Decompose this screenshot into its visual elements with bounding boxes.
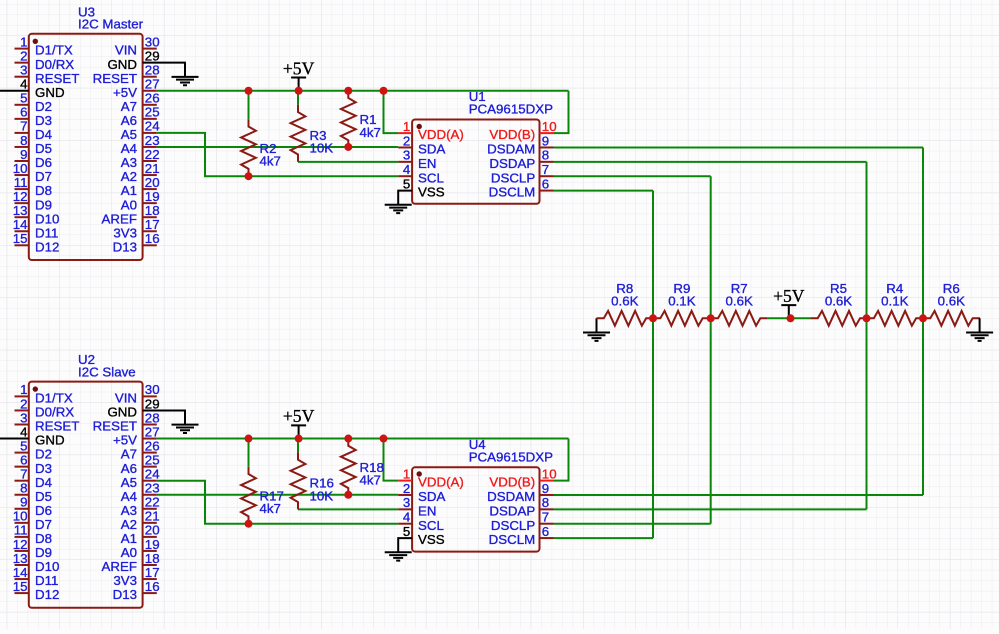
U2 left pin 10 D7 xyxy=(13,509,52,532)
connector U3 body xyxy=(29,34,143,260)
svg-text:D6: D6 xyxy=(35,155,52,170)
U4 right pin 6 DSCLM xyxy=(489,524,554,547)
U1 left pin 1 VDD(A) xyxy=(398,119,464,142)
svg-text:16: 16 xyxy=(145,231,160,246)
U2 right pin 17 3V3 xyxy=(113,565,159,588)
svg-text:16: 16 xyxy=(145,579,160,594)
ground right of R6 xyxy=(966,318,993,341)
svg-text:DSDAM: DSDAM xyxy=(487,489,535,504)
svg-text:D12: D12 xyxy=(35,587,59,602)
U3 left pin 4 GND xyxy=(20,77,64,100)
resistor R1 4k7 (vertical) xyxy=(341,91,356,148)
svg-text:4k7: 4k7 xyxy=(360,473,381,488)
U2 right pin 26 A7 xyxy=(121,438,160,461)
svg-text:0.1K: 0.1K xyxy=(668,293,695,308)
ground near U2 pin 29 xyxy=(172,410,199,433)
U2 left pin 15 D12 xyxy=(13,579,60,602)
svg-text:21: 21 xyxy=(145,161,160,176)
svg-text:0.6K: 0.6K xyxy=(726,293,753,308)
svg-text:D3: D3 xyxy=(35,113,52,128)
wire R2 top lead wire xyxy=(248,91,250,119)
U2 right pin 22 A3 xyxy=(121,495,160,518)
svg-text:28: 28 xyxy=(145,410,160,425)
U2 right pin 19 A0 xyxy=(121,537,160,560)
svg-text:9: 9 xyxy=(20,495,27,510)
svg-text:5: 5 xyxy=(20,438,27,453)
U4 right pin 9 DSDAM xyxy=(487,481,553,504)
svg-text:11: 11 xyxy=(14,523,28,538)
svg-text:7: 7 xyxy=(542,162,549,177)
svg-text:+5V: +5V xyxy=(113,85,137,100)
svg-text:RESET: RESET xyxy=(93,71,137,86)
U2 right pin 30 VIN xyxy=(115,382,160,405)
svg-text:9: 9 xyxy=(20,147,27,162)
svg-text:AREF: AREF xyxy=(102,211,137,226)
svg-text:25: 25 xyxy=(145,452,160,467)
wire net SCL: U3 A5 jog xyxy=(157,133,398,176)
U2 left pin 8 D5 xyxy=(15,481,53,504)
svg-text:5: 5 xyxy=(20,91,27,106)
svg-text:6: 6 xyxy=(542,176,549,191)
svg-text:18: 18 xyxy=(145,203,160,218)
svg-text:A4: A4 xyxy=(121,141,137,156)
svg-text:D9: D9 xyxy=(35,197,52,212)
U3 right pin 23 A4 xyxy=(121,133,160,156)
svg-text:GND: GND xyxy=(107,405,137,420)
svg-text:12: 12 xyxy=(13,189,28,204)
svg-text:3V3: 3V3 xyxy=(113,225,137,240)
svg-text:VDD(B): VDD(B) xyxy=(489,127,535,142)
svg-text:D2: D2 xyxy=(35,99,52,114)
U3 pin-1 marker dot xyxy=(33,39,38,44)
wire net DSCLP A: U1 pin7 xyxy=(554,175,711,177)
wire rail branch to U4 pin1 VDD(A) xyxy=(384,439,399,481)
wire net DSDAP B: U4 pin8 xyxy=(554,508,867,510)
svg-text:D13: D13 xyxy=(113,587,137,602)
U2 right pin 29 GND xyxy=(107,396,159,419)
svg-text:24: 24 xyxy=(145,119,160,134)
svg-text:14: 14 xyxy=(13,217,28,232)
svg-text:VDD(A): VDD(A) xyxy=(418,127,464,142)
wire net EN B: R16 bottom to U4 pin3 xyxy=(298,508,398,510)
resistor R8 0.6K (horizontal) xyxy=(597,311,654,326)
svg-text:+5V: +5V xyxy=(283,406,315,426)
U2 left pin 2 D0/RX xyxy=(15,396,75,419)
wire R16 top lead wire xyxy=(297,439,299,453)
power +5V termination mid xyxy=(781,305,796,318)
U4 right pin 7 DSCLP xyxy=(491,510,554,533)
svg-text:2: 2 xyxy=(403,481,410,496)
svg-text:7: 7 xyxy=(20,467,27,482)
U2 right pin 27 +5V xyxy=(113,424,160,447)
U2 left pin 7 D4 xyxy=(15,467,53,490)
svg-text:DSCLP: DSCLP xyxy=(491,170,535,185)
svg-text:SDA: SDA xyxy=(418,489,445,504)
svg-text:13: 13 xyxy=(13,203,28,218)
wire net DSCLP B: U4 pin7 xyxy=(554,523,711,525)
U2 left pin 1 D1/TX xyxy=(15,382,73,405)
resistor R7 0.6K (horizontal) xyxy=(711,311,768,326)
svg-text:D10: D10 xyxy=(35,211,59,226)
U3 right pin 18 AREF xyxy=(102,203,160,226)
U3 right pin 19 A0 xyxy=(121,189,160,212)
svg-text:4k7: 4k7 xyxy=(360,125,381,140)
svg-text:GND: GND xyxy=(107,57,137,72)
svg-text:+5V: +5V xyxy=(773,286,805,306)
U2 pin-1 marker dot xyxy=(33,386,38,391)
U2 left pin 5 D2 xyxy=(15,438,53,461)
svg-text:3: 3 xyxy=(403,495,410,510)
ground near U3 pin 29 xyxy=(172,63,199,86)
svg-text:VDD(B): VDD(B) xyxy=(489,475,535,490)
svg-text:D4: D4 xyxy=(35,127,52,142)
junction R4/R6/DSDAM xyxy=(919,314,927,322)
U2 right pin 21 A2 xyxy=(121,509,160,532)
svg-text:VIN: VIN xyxy=(115,391,137,406)
junction rail/R1 xyxy=(344,87,352,95)
U3 left pin 9 D6 xyxy=(15,147,53,170)
svg-text:A6: A6 xyxy=(121,461,137,476)
svg-text:28: 28 xyxy=(145,63,160,78)
svg-text:3: 3 xyxy=(20,410,27,425)
svg-text:8: 8 xyxy=(542,148,549,163)
U1 left pin 5 VSS xyxy=(403,176,445,199)
U2 right pin 23 A4 xyxy=(121,481,160,504)
svg-text:20: 20 xyxy=(145,523,160,538)
U3 left pin 14 D11 xyxy=(13,217,59,240)
svg-text:2: 2 xyxy=(20,48,27,63)
resistor R3 10K (vertical) xyxy=(291,105,306,162)
U1 right pin 9 DSDAM xyxy=(487,133,553,156)
svg-text:DSCLP: DSCLP xyxy=(491,518,535,533)
resistor R9 0.1K (horizontal) xyxy=(653,311,710,326)
svg-text:4: 4 xyxy=(20,77,27,92)
svg-text:PCA9615DXP: PCA9615DXP xyxy=(469,450,553,465)
svg-text:D8: D8 xyxy=(35,183,52,198)
svg-text:A5: A5 xyxy=(121,127,137,142)
resistor R16 10K (vertical) xyxy=(291,452,306,509)
U4 right pin 8 DSDAP xyxy=(489,495,553,518)
wire net SDA: U3 A4 to U1 pin2 xyxy=(157,146,398,148)
U2 right pin 24 A5 xyxy=(121,467,160,490)
svg-text:3: 3 xyxy=(20,63,27,78)
svg-text:I2C Slave: I2C Slave xyxy=(78,364,136,379)
U3 left pin 1 D1/TX xyxy=(15,34,73,57)
junction R8/R9/DSCLM xyxy=(649,314,657,322)
U2 left pin 9 D6 xyxy=(15,495,53,518)
svg-text:D5: D5 xyxy=(35,489,52,504)
U3 right pin 30 VIN xyxy=(115,34,160,57)
svg-text:DSDAP: DSDAP xyxy=(489,156,535,171)
svg-text:A2: A2 xyxy=(121,517,137,532)
svg-text:25: 25 xyxy=(145,105,160,120)
svg-text:VSS: VSS xyxy=(418,532,445,547)
svg-text:D5: D5 xyxy=(35,141,52,156)
U2 left pin 14 D11 xyxy=(13,565,59,588)
wire net DSDAP A: U1 pin8 xyxy=(554,161,867,163)
svg-text:A5: A5 xyxy=(121,475,137,490)
junction SDA/R1 bottom xyxy=(344,143,352,151)
U3 right pin 17 3V3 xyxy=(113,217,159,240)
svg-text:4: 4 xyxy=(20,424,27,439)
power +5V bottom rail xyxy=(291,425,306,438)
ground left of R8 xyxy=(583,318,610,341)
svg-text:SCL: SCL xyxy=(418,170,444,185)
IC U1 PCA9615DXP body xyxy=(412,120,539,204)
svg-text:20: 20 xyxy=(145,175,160,190)
U2 left pin 6 D3 xyxy=(15,452,53,475)
resistor R17 4k7 (vertical) xyxy=(241,467,256,524)
svg-text:D1/TX: D1/TX xyxy=(35,391,73,406)
U3 left pin 11 D8 xyxy=(14,175,52,198)
U1 right pin 10 VDD(B) xyxy=(489,119,556,142)
wire +5V rail bottom xyxy=(157,438,569,440)
wire net DSCLM B: U4 pin6 xyxy=(554,537,654,539)
junction rail/+5V/R3 xyxy=(295,87,303,95)
svg-text:11: 11 xyxy=(14,175,28,190)
U4 left pin 3 EN xyxy=(398,495,436,518)
wire rail to U1 pin10 VDD(B) xyxy=(554,91,569,133)
svg-text:7: 7 xyxy=(542,510,549,525)
svg-text:24: 24 xyxy=(145,467,160,482)
svg-text:4k7: 4k7 xyxy=(260,501,281,516)
U3 right pin 16 D13 xyxy=(113,231,160,254)
svg-text:D2: D2 xyxy=(35,447,52,462)
U3 left pin 10 D7 xyxy=(13,161,52,184)
svg-text:+5V: +5V xyxy=(283,58,315,78)
U3 right pin 28 RESET xyxy=(93,63,160,86)
U3 left pin 5 D2 xyxy=(15,91,53,114)
svg-text:A1: A1 xyxy=(121,531,137,546)
svg-text:29: 29 xyxy=(145,396,160,411)
svg-text:A4: A4 xyxy=(121,489,137,504)
svg-text:D10: D10 xyxy=(35,559,59,574)
svg-text:18: 18 xyxy=(145,551,160,566)
svg-text:A1: A1 xyxy=(121,183,137,198)
svg-text:D0/RX: D0/RX xyxy=(35,405,74,420)
svg-text:21: 21 xyxy=(145,509,160,524)
wire R17 top lead wire xyxy=(248,439,250,467)
U2 left pin 12 D9 xyxy=(13,537,52,560)
svg-text:6: 6 xyxy=(542,524,549,539)
svg-text:D8: D8 xyxy=(35,531,52,546)
svg-text:10: 10 xyxy=(13,161,28,176)
U3 right pin 29 GND xyxy=(107,48,159,71)
U2 left pin 13 D10 xyxy=(13,551,60,574)
U3 right pin 20 A1 xyxy=(121,175,160,198)
svg-text:D4: D4 xyxy=(35,475,52,490)
svg-text:30: 30 xyxy=(145,34,160,49)
junction rail B/+5V/R16 xyxy=(295,435,303,443)
U3 right pin 27 +5V xyxy=(113,77,160,100)
svg-text:D6: D6 xyxy=(35,503,52,518)
wire rail to U4 pin10 VDD(B) xyxy=(554,439,569,481)
U1 pin-1 marker dot xyxy=(417,124,422,129)
svg-text:4: 4 xyxy=(403,162,410,177)
svg-text:19: 19 xyxy=(145,537,160,552)
wire U2 pin4 GND stub xyxy=(0,438,29,440)
junction rail/U1 VDD(A) branch xyxy=(380,87,388,95)
svg-text:PCA9615DXP: PCA9615DXP xyxy=(469,102,553,117)
wire R3 top lead wire xyxy=(297,91,299,105)
svg-text:1: 1 xyxy=(20,34,27,49)
ground U4 VSS xyxy=(385,538,412,561)
U2 right pin 28 RESET xyxy=(93,410,160,433)
U3 right pin 26 A7 xyxy=(121,91,160,114)
svg-text:3: 3 xyxy=(403,148,410,163)
U3 left pin 12 D9 xyxy=(13,189,52,212)
junction rail B/R17 xyxy=(245,435,253,443)
svg-text:9: 9 xyxy=(542,481,549,496)
svg-text:5: 5 xyxy=(403,176,410,191)
junction rail B/R18 xyxy=(344,435,352,443)
wire U1 pin5 VSS xyxy=(398,190,412,192)
U3 left pin 8 D5 xyxy=(15,133,53,156)
U4 pin-1 marker dot xyxy=(417,471,422,476)
U1 left pin 3 EN xyxy=(398,148,436,171)
wire U3 pin4 GND stub xyxy=(0,90,29,92)
connector U2 body xyxy=(29,382,143,608)
svg-text:RESET: RESET xyxy=(35,419,79,434)
svg-text:GND: GND xyxy=(35,85,65,100)
wire U2 pin29 GND xyxy=(143,409,185,411)
wire net EN: R3 bottom to U1 pin3 xyxy=(298,161,398,163)
svg-text:26: 26 xyxy=(145,91,160,106)
svg-text:D11: D11 xyxy=(35,573,58,588)
svg-text:17: 17 xyxy=(145,565,160,580)
svg-text:17: 17 xyxy=(145,217,160,232)
svg-text:+5V: +5V xyxy=(113,433,137,448)
U2 left pin 3 RESET xyxy=(15,410,80,433)
svg-text:D7: D7 xyxy=(35,169,52,184)
resistor R6 0.6K (horizontal) xyxy=(923,311,980,326)
svg-text:15: 15 xyxy=(13,231,28,246)
svg-text:D11: D11 xyxy=(35,225,58,240)
U3 left pin 3 RESET xyxy=(15,63,80,86)
U3 left pin 2 D0/RX xyxy=(15,48,75,71)
svg-text:D9: D9 xyxy=(35,545,52,560)
svg-text:VIN: VIN xyxy=(115,43,137,58)
svg-text:27: 27 xyxy=(145,424,160,439)
svg-text:0.6K: 0.6K xyxy=(938,293,965,308)
U3 right pin 24 A5 xyxy=(121,119,160,142)
U4 right pin 10 VDD(B) xyxy=(489,466,556,489)
svg-text:0.6K: 0.6K xyxy=(825,293,852,308)
U3 left pin 13 D10 xyxy=(13,203,60,226)
svg-text:9: 9 xyxy=(542,133,549,148)
ground U1 VSS xyxy=(385,191,412,214)
junction SCL/R2 bottom xyxy=(245,172,253,180)
svg-text:10: 10 xyxy=(542,466,557,481)
junction R9/R7/DSCLP xyxy=(707,314,715,322)
svg-text:DSCLM: DSCLM xyxy=(489,185,536,200)
wire net DSCLM A: U1 pin6 xyxy=(554,190,654,192)
svg-text:D0/RX: D0/RX xyxy=(35,57,74,72)
resistor R4 0.1K (horizontal) xyxy=(867,311,924,326)
U4 left pin 2 SDA xyxy=(398,481,445,504)
U4 left pin 1 VDD(A) xyxy=(398,466,464,489)
U1 right pin 6 DSCLM xyxy=(489,176,554,199)
junction rail/R2 xyxy=(245,87,253,95)
svg-text:8: 8 xyxy=(20,481,27,496)
U3 right pin 22 A3 xyxy=(121,147,160,170)
wire bus DSDAP vertical xyxy=(866,162,868,510)
svg-text:30: 30 xyxy=(145,382,160,397)
power +5V top rail xyxy=(291,78,306,91)
svg-text:RESET: RESET xyxy=(93,419,137,434)
svg-text:D7: D7 xyxy=(35,517,52,532)
svg-text:23: 23 xyxy=(145,481,160,496)
svg-text:6: 6 xyxy=(20,105,27,120)
svg-text:DSDAP: DSDAP xyxy=(489,503,535,518)
junction R5/R4/DSDAP xyxy=(863,314,871,322)
svg-text:0.6K: 0.6K xyxy=(611,293,638,308)
svg-text:A6: A6 xyxy=(121,113,137,128)
svg-text:10: 10 xyxy=(13,509,28,524)
svg-text:29: 29 xyxy=(145,48,160,63)
svg-text:3V3: 3V3 xyxy=(113,573,137,588)
U3 left pin 7 D4 xyxy=(15,119,53,142)
wire bus DSCLP vertical xyxy=(710,176,712,524)
svg-text:A0: A0 xyxy=(121,545,137,560)
svg-text:13: 13 xyxy=(13,551,28,566)
resistor R2 4k7 (vertical) xyxy=(241,119,256,176)
svg-text:14: 14 xyxy=(13,565,28,580)
svg-text:26: 26 xyxy=(145,438,160,453)
U2 right pin 16 D13 xyxy=(113,579,160,602)
U1 left pin 2 SDA xyxy=(398,133,445,156)
svg-text:8: 8 xyxy=(542,495,549,510)
U2 right pin 18 AREF xyxy=(102,551,160,574)
U3 right pin 21 A2 xyxy=(121,161,160,184)
svg-text:27: 27 xyxy=(145,77,160,92)
U4 left pin 5 VSS xyxy=(403,524,445,547)
svg-text:A7: A7 xyxy=(121,447,137,462)
svg-text:D13: D13 xyxy=(113,239,137,254)
svg-text:D12: D12 xyxy=(35,239,59,254)
U4 left pin 4 SCL xyxy=(398,510,444,533)
U2 left pin 11 D8 xyxy=(14,523,52,546)
U3 left pin 15 D12 xyxy=(13,231,60,254)
wire net SCL B: U2 A5 jog xyxy=(157,481,398,524)
U1 left pin 4 SCL xyxy=(398,162,444,185)
svg-text:GND: GND xyxy=(35,433,65,448)
svg-text:7: 7 xyxy=(20,119,27,134)
svg-text:10: 10 xyxy=(542,119,557,134)
svg-text:15: 15 xyxy=(13,579,28,594)
svg-text:5: 5 xyxy=(403,524,410,539)
svg-text:A7: A7 xyxy=(121,99,137,114)
svg-text:6: 6 xyxy=(20,452,27,467)
wire termination +5V link xyxy=(768,317,811,319)
wire U3 pin29 GND drop xyxy=(184,62,186,64)
U3 right pin 25 A6 xyxy=(121,105,160,128)
junction +5V termination xyxy=(787,314,795,322)
wire bus DSDAM vertical xyxy=(922,147,924,495)
wire +5V rail top xyxy=(157,90,569,92)
svg-text:D1/TX: D1/TX xyxy=(35,43,73,58)
svg-text:I2C Master: I2C Master xyxy=(78,17,144,32)
svg-text:22: 22 xyxy=(145,147,160,162)
resistor R18 4k7 (vertical) xyxy=(341,438,356,495)
wire bus DSCLM vertical xyxy=(652,191,654,539)
svg-text:8: 8 xyxy=(20,133,27,148)
svg-text:VDD(A): VDD(A) xyxy=(418,475,464,490)
wire net DSDAM A: U1 pin9 xyxy=(554,146,924,148)
svg-text:1: 1 xyxy=(403,119,410,134)
wire net SDA B: U2 A4 to U4 pin2 xyxy=(157,494,398,496)
svg-text:EN: EN xyxy=(418,503,436,518)
